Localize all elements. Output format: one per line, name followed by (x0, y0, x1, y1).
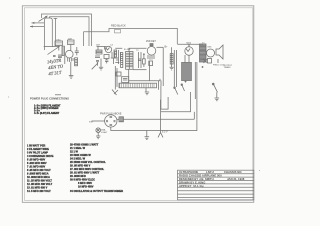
svg-text:OSC: OSC (56, 39, 61, 41)
svg-text:RED BLACK: RED BLACK (111, 24, 126, 28)
svg-text:LIGHT: LIGHT (101, 132, 108, 134)
svg-text:34 OSCILLATOR & OUTPUT TRAN: 34 OSCILLATOR & OUTPUT TRANSFORMER (70, 190, 123, 193)
svg-text:JAN 31, 1938: JAN 31, 1938 (227, 177, 245, 181)
svg-text:IF 456: IF 456 (124, 49, 131, 51)
svg-text:5Y3: 5Y3 (187, 42, 192, 45)
svg-text:16 MFD 450V: 16 MFD 450V (78, 185, 94, 188)
svg-text:CHASSIS NO.: CHASSIS NO. (224, 170, 242, 174)
svg-text:EXT: EXT (89, 121, 94, 123)
svg-text:POWER PLUG CONNECTIONS: POWER PLUG CONNECTIONS (30, 96, 69, 100)
svg-text:14 .5 MFD 200 VOLT: 14 .5 MFD 200 VOLT (27, 190, 51, 193)
svg-text:M.L.Sig: M.L.Sig (192, 184, 204, 188)
svg-text:4- B- (6.3V) FILAMENT: 4- B- (6.3V) FILAMENT (34, 112, 60, 115)
svg-text:6.3 V: 6.3 V (162, 131, 168, 134)
svg-text:TRANS: TRANS (224, 66, 232, 69)
svg-text:2ND DET: 2ND DET (146, 41, 156, 43)
svg-text:PWR PLUG ABOVE: PWR PLUG ABOVE (100, 112, 122, 115)
svg-text:APPD BY: APPD BY (179, 184, 192, 188)
